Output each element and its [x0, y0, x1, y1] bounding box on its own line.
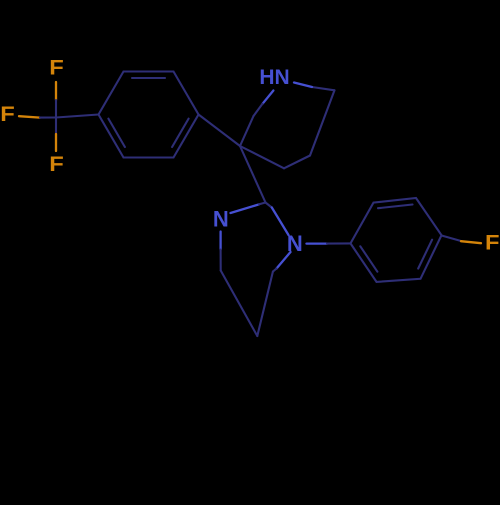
wire C2-C3 bond: [240, 116, 254, 146]
left benzene ring: [99, 72, 199, 158]
wire N3 to fluorophenyl bond: [307, 242, 351, 245]
wire N-C2 bond: [263, 91, 274, 104]
wire CF3 to benzene ring bond: [56, 115, 99, 118]
wire C(CF3)-F left bond: [19, 116, 56, 117]
wire C4-C5 bond: [257, 272, 273, 336]
svg-text:F: F: [485, 232, 500, 255]
svg-text:F: F: [49, 153, 64, 176]
wire C4-C5 bond: [284, 156, 310, 169]
wire C(CF3)-F bottom bond: [55, 117, 57, 151]
wire C5-C6 bond: [221, 271, 258, 337]
tetrahydropyrimidine ring: [221, 203, 291, 337]
wire N1=C2 bond: [231, 204, 260, 213]
svg-text:HN: HN: [259, 66, 289, 89]
svg-text:N: N: [213, 207, 229, 232]
svg-text:N: N: [287, 231, 303, 256]
svg-text:F: F: [49, 57, 64, 80]
wire N1-C6 bond: [219, 232, 221, 250]
wire benzene to piperidine C3 bond: [199, 115, 241, 147]
right fluorophenyl ring: [351, 198, 442, 282]
wire C(CF3)-F top bond: [55, 82, 57, 117]
wire piperidine C3 to amidine C2 bond: [240, 146, 266, 203]
wire N3-C4 bond: [277, 252, 291, 269]
wire C3-C4 bond: [240, 146, 284, 168]
svg-text:F: F: [0, 103, 15, 126]
wire C6-N bond: [312, 87, 335, 90]
wire C2-N3 bond: [266, 203, 272, 208]
piperidine ring (top): [240, 83, 335, 169]
wire phenyl-F right bond: [442, 236, 482, 244]
wire C5-C6 bond: [310, 90, 335, 155]
